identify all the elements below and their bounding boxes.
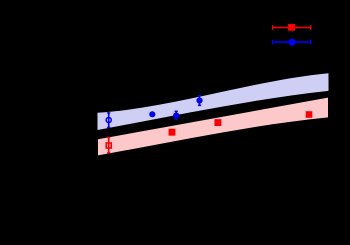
legend red square marker — [288, 24, 295, 31]
filled red square 2 — [169, 129, 176, 136]
legend blue errorbar entry — [272, 40, 311, 45]
filled blue circle 4 — [196, 97, 202, 103]
open red square marker — [106, 143, 111, 148]
legend red errorbar entry — [272, 25, 311, 30]
open blue circle marker — [106, 117, 111, 122]
filled blue circle 2 — [149, 111, 155, 117]
red fit band — [98, 98, 328, 156]
filled red square 4 — [306, 111, 313, 118]
filled blue circle 3 — [173, 112, 179, 118]
errorbar of blue point 4 — [198, 95, 201, 106]
errorbar of blue point 3 — [175, 111, 178, 120]
legend blue circle marker — [289, 39, 296, 46]
errorbar of open red point — [107, 137, 110, 154]
errorbar of open blue point — [107, 112, 110, 128]
blue fit band — [98, 73, 329, 130]
filled red square 3 — [214, 119, 221, 126]
